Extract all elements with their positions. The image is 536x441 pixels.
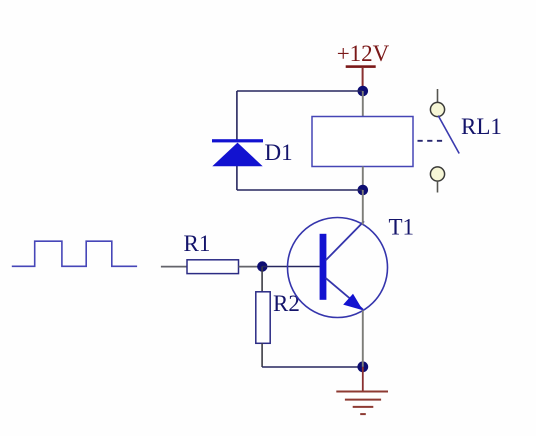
relay coil RL1 box bbox=[312, 117, 413, 167]
relay dashed link bbox=[418, 140, 443, 142]
svg-text:D1: D1 bbox=[265, 140, 293, 165]
wire diode left vertical bottom bbox=[236, 166, 238, 190]
junction node emitter bbox=[357, 361, 368, 372]
ground bar 3 bbox=[353, 406, 374, 408]
junction node base bbox=[257, 261, 267, 271]
wire mid horizontal bbox=[237, 189, 363, 191]
switch RL1 bottom contact bbox=[430, 167, 444, 181]
input square wave bbox=[12, 241, 137, 266]
ground bar 1 bbox=[336, 391, 388, 393]
wire diode left vertical top bbox=[236, 91, 238, 140]
transistor T1 collector line bbox=[326, 221, 364, 260]
wire bottom horizontal bbox=[262, 366, 363, 368]
switch RL1 lever bbox=[438, 116, 459, 154]
svg-text:+12V: +12V bbox=[337, 41, 390, 66]
svg-text:R1: R1 bbox=[184, 231, 211, 256]
wire junction to base bbox=[262, 266, 320, 268]
wire junction to collector bbox=[362, 190, 364, 225]
wire +12V bar to junction bbox=[362, 68, 364, 87]
wire input to R1 bbox=[161, 266, 187, 268]
transistor T1 base bar bbox=[320, 234, 327, 300]
ground bar 4 bbox=[360, 413, 366, 415]
wire junction to ground bbox=[362, 367, 364, 392]
diode D1 triangle bbox=[212, 143, 262, 167]
wire top horizontal bbox=[237, 90, 363, 92]
resistor R1 body bbox=[187, 260, 239, 274]
wire junction to R2 top bbox=[261, 267, 263, 292]
resistor R2 body bbox=[256, 292, 270, 344]
switch RL1 bottom stub bbox=[437, 181, 439, 192]
wire junction to relay top bbox=[362, 91, 364, 117]
junction node top bbox=[358, 86, 369, 97]
power +12V bar bbox=[346, 65, 376, 68]
wire emitter to junction bbox=[362, 310, 364, 366]
diode D1 cathode bar bbox=[212, 139, 263, 142]
switch RL1 top contact bbox=[430, 102, 444, 116]
ground bar 2 bbox=[345, 399, 381, 401]
junction node mid bbox=[358, 185, 369, 196]
transistor T1 circle bbox=[288, 218, 388, 318]
svg-text:RL1: RL1 bbox=[461, 114, 502, 139]
wire R2 bottom bbox=[261, 343, 263, 367]
transistor T1 emitter arrow bbox=[343, 294, 363, 311]
wire R1 to junction bbox=[239, 266, 263, 268]
wire relay bottom to junction bbox=[362, 167, 364, 191]
switch RL1 top stub bbox=[437, 89, 439, 102]
transistor T1 emitter line bbox=[326, 278, 363, 310]
svg-text:T1: T1 bbox=[389, 214, 415, 239]
